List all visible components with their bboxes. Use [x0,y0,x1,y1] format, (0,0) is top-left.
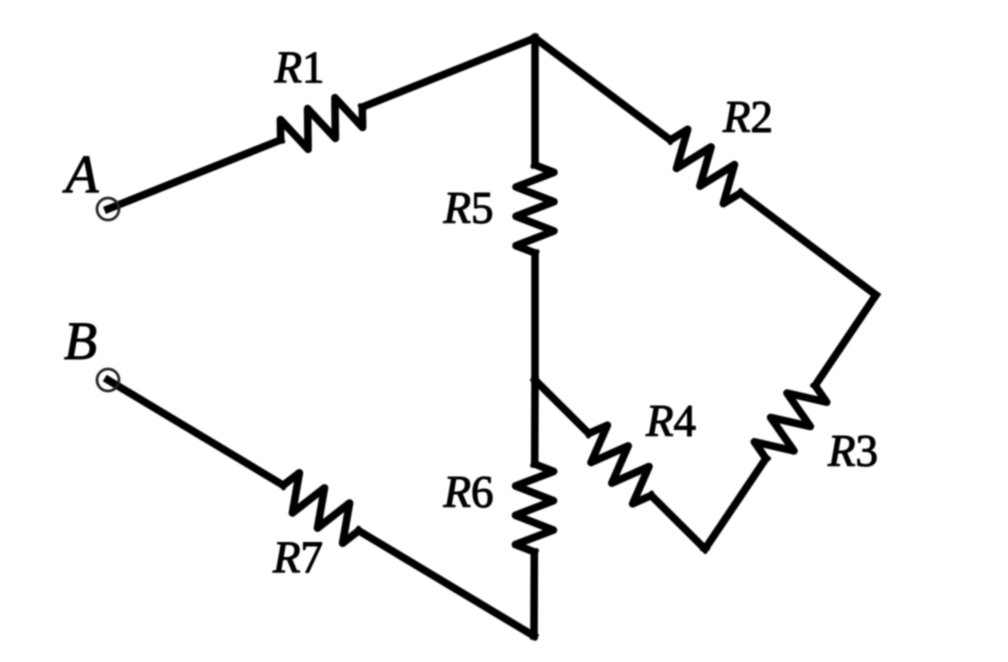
wire R6 lead from (535, 380) [531,380,539,464]
svg-text:R6: R6 [443,467,494,517]
resistor R7 zigzag [283,473,358,543]
svg-text:B: B [64,311,97,371]
svg-text:R7: R7 [272,533,323,583]
wire R2 lead to (876, 295) [741,193,876,295]
resistor R3 zigzag [754,386,826,459]
wire R7 lead to (534, 636) [359,531,534,636]
wire R1 lead to (535, 38) [362,38,535,107]
svg-text:R2: R2 [722,92,773,142]
resistor R2 zigzag [670,129,740,203]
svg-text:R5: R5 [443,183,494,233]
wire R4 lead from (535, 380) [535,380,589,434]
svg-text:R1: R1 [274,43,325,93]
wire R5 lead to (535, 380) [531,253,539,380]
wire R4 lead to (705, 549) [651,496,705,550]
resistor R6 zigzag [515,464,553,552]
terminal A circle [97,198,119,220]
wire R3 lead to (705, 549) [705,459,766,550]
resistor R4 zigzag [589,425,651,504]
svg-text:A: A [63,145,100,205]
wire R1 lead from (108, 209) [108,140,281,209]
svg-text:R3: R3 [827,426,878,476]
terminal B circle [97,369,119,391]
wire R3 lead from (876, 295) [815,295,876,386]
wire R7 lead from (108, 380) [108,380,283,485]
wire R2 lead from (535, 38) [535,38,670,140]
svg-text:R4: R4 [645,396,696,446]
resistor R5 zigzag [516,165,554,253]
wire R5 lead from (535, 38) [531,38,539,165]
wire R6 lead to (534, 636) [530,552,538,636]
resistor R1 zigzag [280,98,362,150]
